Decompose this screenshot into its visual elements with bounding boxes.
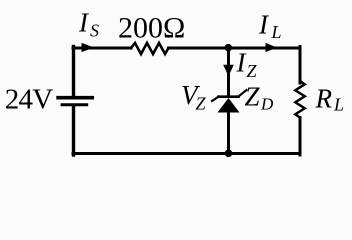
svg-text:L: L: [333, 94, 344, 114]
svg-text:24V: 24V: [5, 84, 53, 116]
svg-text:L: L: [271, 22, 282, 42]
svg-text:Z: Z: [196, 93, 207, 113]
svg-text:S: S: [90, 20, 99, 40]
svg-text:I: I: [258, 10, 270, 40]
svg-text:I: I: [78, 8, 90, 38]
svg-text:Z: Z: [247, 61, 258, 81]
svg-text:D: D: [260, 94, 274, 113]
svg-text:Z: Z: [245, 82, 261, 112]
svg-text:R: R: [315, 83, 333, 113]
svg-text:200Ω: 200Ω: [118, 12, 185, 45]
